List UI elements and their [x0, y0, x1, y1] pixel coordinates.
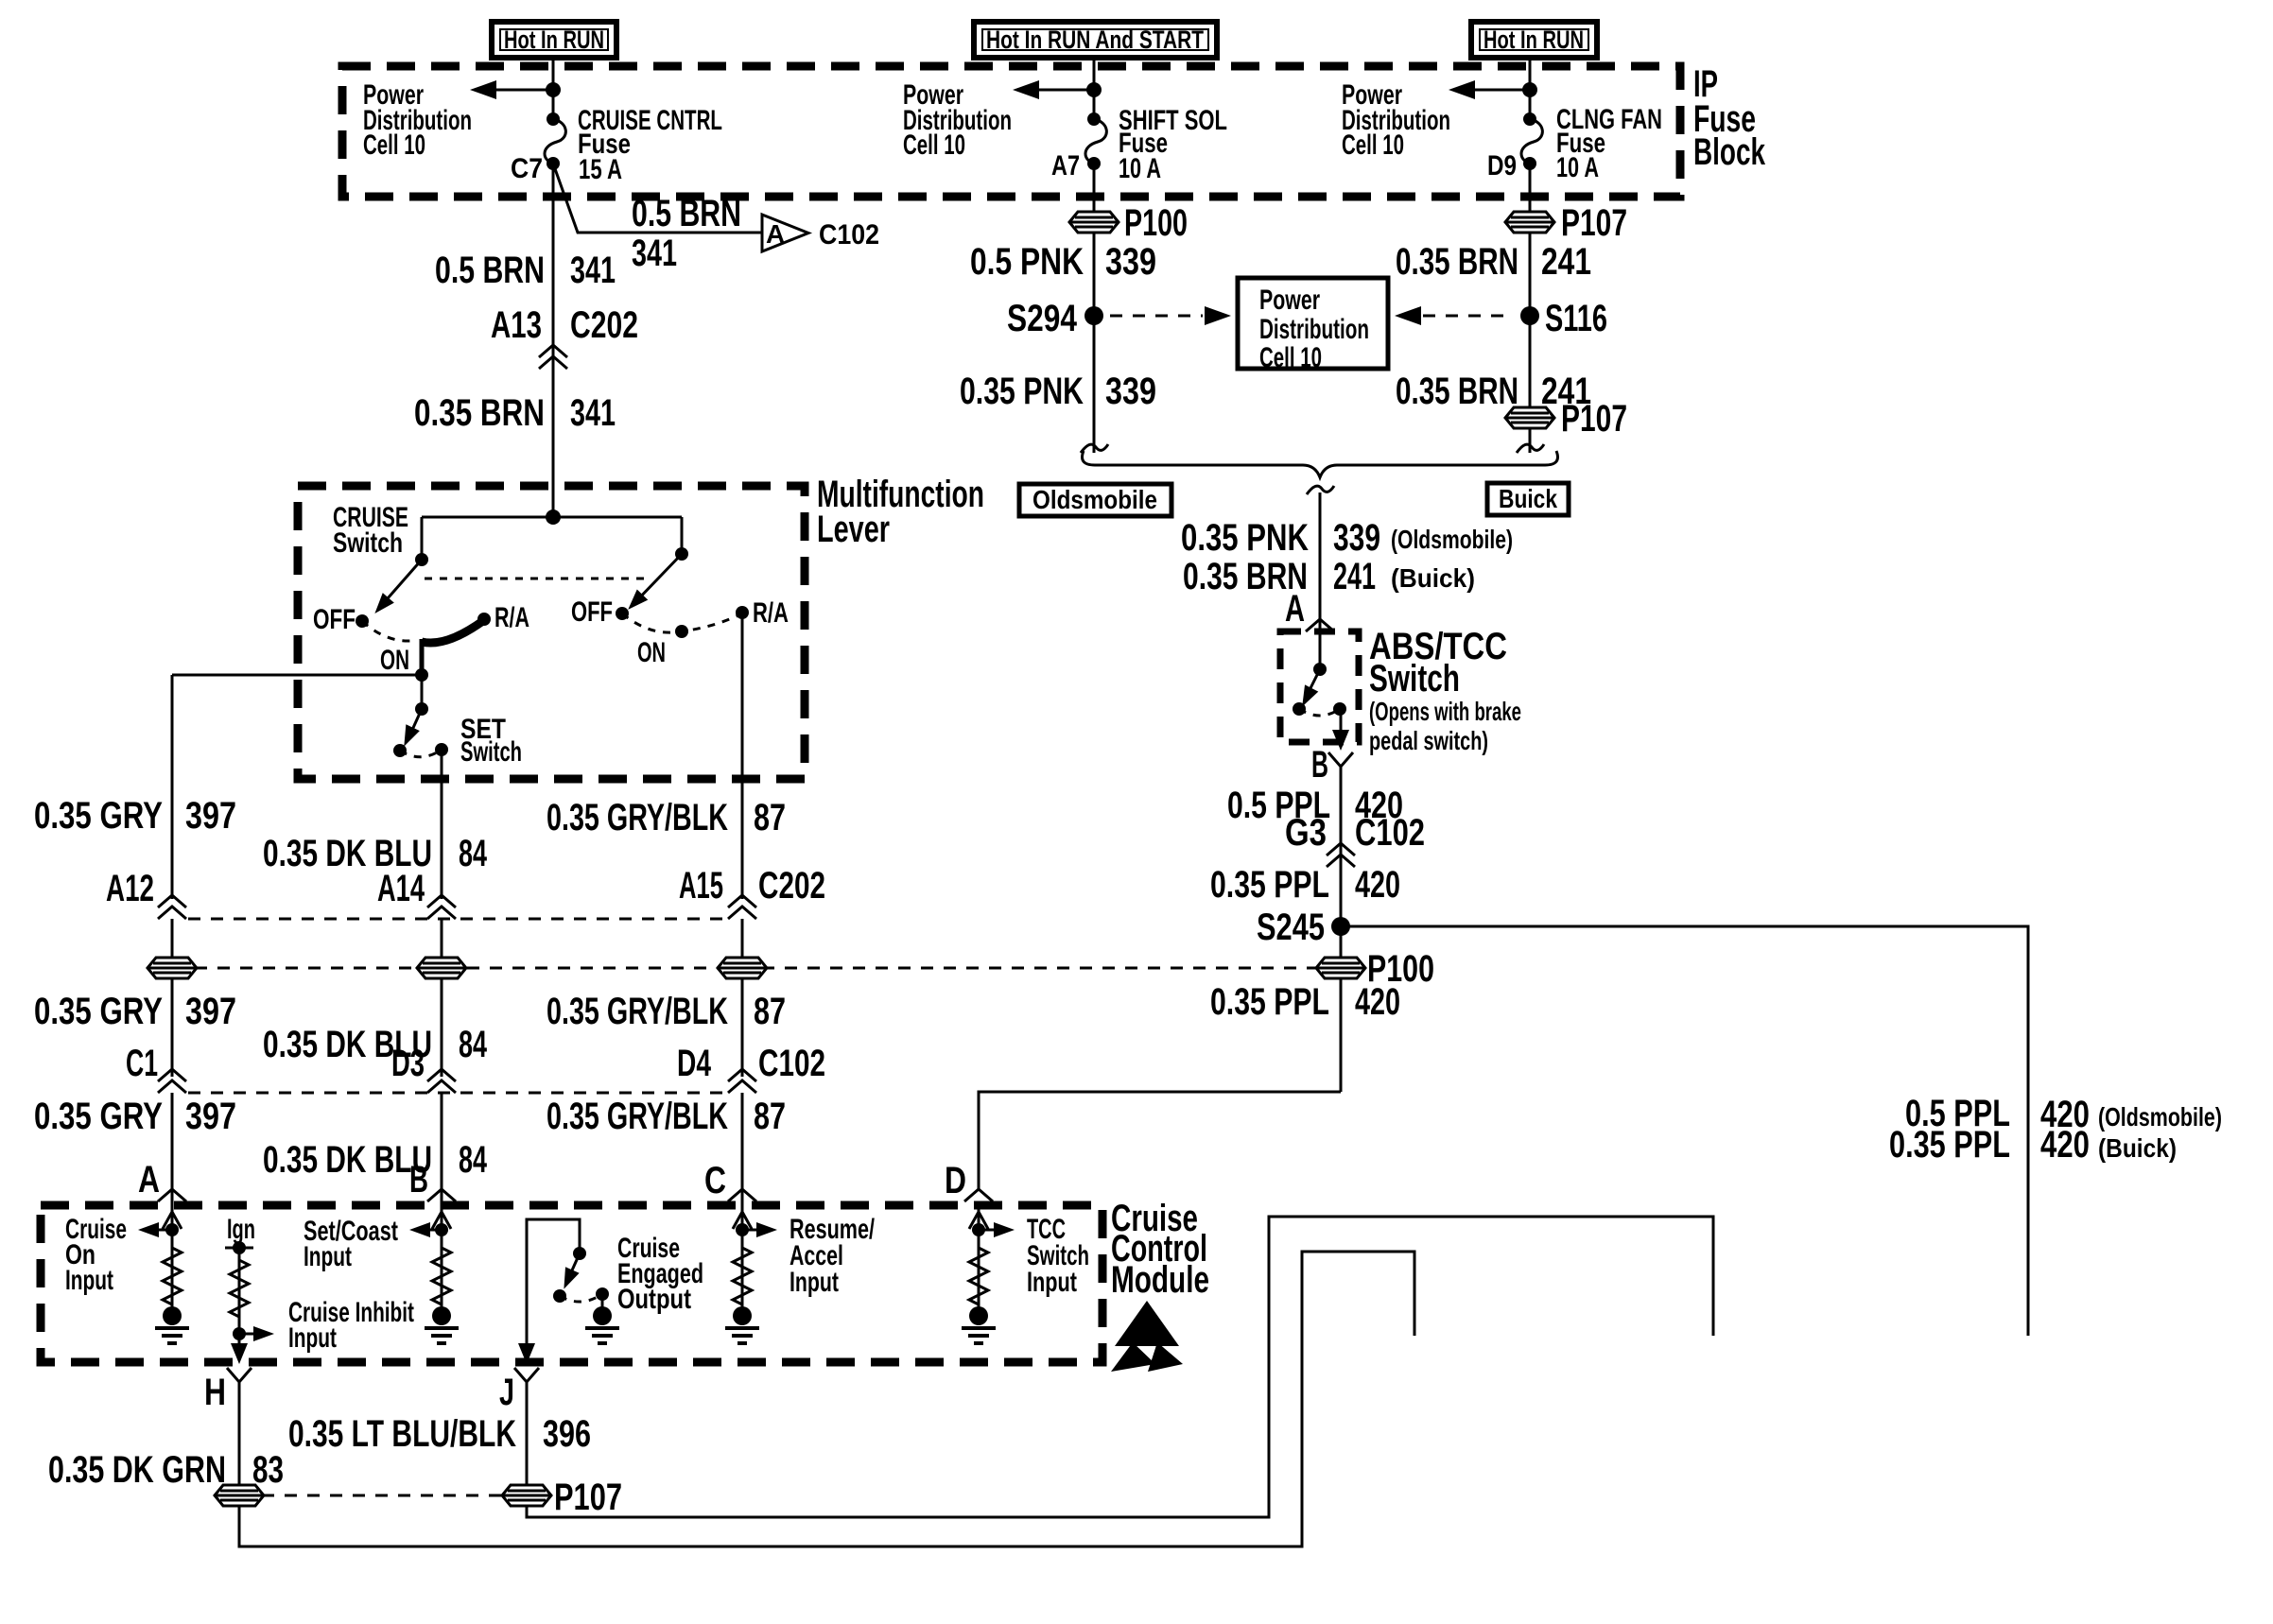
- wire break tildes above brace: [1081, 444, 1108, 453]
- fuse SHIFT SOL 10 A: [1085, 112, 1106, 170]
- svg-text:G3: G3: [1285, 812, 1327, 854]
- grommet (B column): [417, 958, 466, 978]
- wire: B column (DK BLU 84): [441, 750, 443, 899]
- svg-text:A13: A13: [491, 304, 542, 346]
- Hot In RUN tag (right): [1471, 22, 1597, 58]
- pin J below cruise module: [514, 1368, 539, 1382]
- svg-text:Module: Module: [1111, 1259, 1209, 1301]
- label: CLNG FAN Fuse 10 A: [1556, 104, 1662, 183]
- node: cruise switch feed junction: [546, 510, 561, 525]
- wire: PPL 420 down from ABS/TCC: [1340, 767, 1343, 926]
- grommet P100: [1069, 212, 1119, 233]
- svg-text:Output: Output: [617, 1284, 691, 1315]
- svg-text:397: 397: [185, 1096, 236, 1137]
- svg-text:A14: A14: [377, 868, 425, 909]
- wire: middle column below fuse: [1093, 164, 1096, 453]
- svg-text:Switch: Switch: [1369, 658, 1460, 700]
- svg-text:(Opens with brake: (Opens with brake: [1369, 697, 1521, 726]
- Ign branch internals: [225, 1214, 274, 1364]
- wire: merged feed down to ABS/TCC switch: [1319, 492, 1322, 635]
- arrow to power distribution cell 10 (middle): [1033, 89, 1094, 92]
- svg-text:397: 397: [185, 795, 236, 837]
- label: CRUISE Switch: [333, 502, 408, 559]
- wire: hot feed left column: [552, 58, 555, 120]
- wire: H output DK GRN 83: [239, 1252, 1414, 1546]
- arrow to power distribution cell 10 (left): [491, 89, 553, 92]
- cruise engaged output switch internals: [518, 1219, 619, 1364]
- svg-text:339: 339: [1333, 517, 1380, 559]
- label: Power Distribution Cell 10 (left): [363, 79, 472, 161]
- svg-text:Hot In RUN And START: Hot In RUN And START: [986, 26, 1204, 54]
- wire: branch to C102 terminal A: [553, 164, 762, 233]
- ABS/TCC switch contacts: [1293, 633, 1349, 751]
- svg-text:Block: Block: [1693, 131, 1766, 173]
- svg-text:Power: Power: [1259, 285, 1320, 316]
- fuse CLNG FAN 10 A: [1521, 112, 1542, 170]
- svg-text:OFF: OFF: [313, 604, 356, 635]
- svg-text:420: 420: [1355, 981, 1400, 1023]
- svg-text:0.35 GRY/BLK: 0.35 GRY/BLK: [547, 991, 728, 1032]
- svg-text:87: 87: [754, 991, 786, 1032]
- svg-text:Input: Input: [789, 1267, 839, 1298]
- svg-text:D9: D9: [1487, 150, 1517, 181]
- svg-text:0.5 BRN: 0.5 BRN: [435, 250, 545, 291]
- wire: PPL 420 over to cruise module pin D: [979, 1092, 1341, 1190]
- label: Cruise Control Module: [1111, 1198, 1209, 1301]
- wires through bulkhead grommets: [171, 919, 174, 1077]
- svg-text:420: 420: [1355, 864, 1400, 906]
- svg-text:P107: P107: [554, 1477, 622, 1518]
- wire: left switch drop: [421, 517, 424, 560]
- right ON contact: [675, 625, 688, 638]
- Power Distribution Cell 10 box: [1238, 278, 1388, 373]
- svg-text:pedal switch): pedal switch): [1369, 726, 1488, 755]
- svg-text:84: 84: [459, 1139, 488, 1181]
- svg-text:Distribution: Distribution: [1259, 314, 1369, 345]
- Multifunction Lever dashed box: [298, 486, 805, 779]
- svg-text:D: D: [945, 1160, 966, 1201]
- svg-text:(Oldsmobile): (Oldsmobile): [1391, 525, 1513, 554]
- svg-text:ON: ON: [637, 637, 666, 668]
- label: Cruise On Input: [65, 1214, 127, 1296]
- svg-text:0.5 BRN: 0.5 BRN: [632, 193, 741, 234]
- tcc switch input pin D internals: [962, 1207, 1015, 1343]
- svg-text:P107: P107: [1561, 398, 1627, 440]
- svg-text:A7: A7: [1051, 150, 1080, 181]
- svg-text:241: 241: [1541, 241, 1591, 283]
- merge brace: [1083, 451, 1558, 477]
- svg-text:339: 339: [1105, 241, 1156, 283]
- label: Multifunction Lever: [817, 474, 984, 550]
- wire: S245 to PCM TCC brake switch input: [1341, 926, 2028, 1336]
- svg-text:341: 341: [632, 233, 677, 274]
- svg-text:397: 397: [185, 991, 236, 1032]
- closed contact arc to R/A: [422, 620, 484, 643]
- svg-text:0.35 PPL: 0.35 PPL: [1889, 1124, 2010, 1166]
- dashed grommet row to P100: [172, 967, 1316, 970]
- svg-text:0.35 BRN: 0.35 BRN: [1396, 371, 1518, 412]
- svg-text:0.35 GRY/BLK: 0.35 GRY/BLK: [547, 797, 728, 838]
- svg-text:R/A: R/A: [495, 602, 529, 633]
- wire: ON output to A column: [172, 674, 422, 677]
- dashed grommet row P107: [239, 1494, 527, 1497]
- svg-text:C202: C202: [570, 304, 638, 346]
- svg-text:S294: S294: [1007, 298, 1078, 339]
- junction dot: [1522, 82, 1537, 97]
- svg-text:A12: A12: [106, 868, 154, 909]
- svg-text:OFF: OFF: [571, 596, 613, 628]
- svg-text:C7: C7: [511, 153, 543, 184]
- grommet (H column): [215, 1485, 264, 1506]
- grommet (A column): [147, 958, 197, 978]
- svg-text:84: 84: [459, 1024, 488, 1065]
- svg-text:S116: S116: [1545, 298, 1607, 339]
- dashed throw arc left switch: [362, 621, 410, 641]
- svg-text:S245: S245: [1257, 907, 1325, 948]
- junction dot: [546, 82, 561, 97]
- SET switch contacts: [393, 744, 407, 757]
- right switch arm arrow: [634, 554, 682, 603]
- left switch arm arrow: [381, 560, 422, 606]
- left OFF contact: [356, 614, 369, 628]
- svg-text:84: 84: [459, 833, 488, 874]
- svg-text:A: A: [1285, 588, 1305, 630]
- label: ABS/TCC Switch: [1369, 626, 1521, 755]
- ABS/TCC switch dashed box: [1280, 631, 1359, 742]
- connector A13 C202: [491, 304, 638, 369]
- grommet P100 (lower): [1316, 958, 1365, 978]
- svg-text:Input: Input: [288, 1322, 337, 1354]
- label: SHIFT SOL Fuse 10 A: [1119, 105, 1227, 184]
- wire: hot feed middle column: [1093, 58, 1096, 120]
- svg-text:0.35 PPL: 0.35 PPL: [1210, 981, 1329, 1023]
- svg-text:341: 341: [570, 392, 616, 434]
- ESD symbol (cruise control module): [1111, 1301, 1183, 1372]
- svg-text:(Buick): (Buick): [2098, 1133, 2177, 1163]
- dashed throw arc right switch: [622, 613, 742, 632]
- connector row C102: C1 D3 D4: [126, 1043, 825, 1093]
- svg-text:0.35 DK BLU: 0.35 DK BLU: [263, 1139, 432, 1181]
- module pins A B C D: [138, 1159, 993, 1201]
- wire: down to SET switch: [421, 675, 424, 709]
- node: ON output junction: [415, 668, 428, 682]
- svg-text:C202: C202: [758, 865, 825, 907]
- splice S116: [1520, 306, 1539, 325]
- right R/A contact: [736, 606, 749, 619]
- wire: C column (GRY/BLK 87): [741, 613, 744, 899]
- svg-text:0.35 LT BLU/BLK: 0.35 LT BLU/BLK: [288, 1413, 516, 1455]
- svg-text:B: B: [1311, 744, 1328, 786]
- grommet (C column): [718, 958, 767, 978]
- svg-text:J: J: [499, 1372, 514, 1413]
- svg-text:0.35 PNK: 0.35 PNK: [960, 371, 1084, 412]
- svg-text:87: 87: [754, 1096, 786, 1137]
- junction dot: [1086, 82, 1102, 97]
- grommet P107: [1505, 212, 1554, 233]
- wire: S245 down through P100: [1340, 926, 1343, 1092]
- svg-text:C: C: [704, 1160, 726, 1201]
- connector G3 C102: [1285, 812, 1425, 867]
- svg-text:10 A: 10 A: [1119, 153, 1161, 184]
- wire break tilde below brace: [1307, 486, 1334, 494]
- wire: J output LT BLU/BLK 396: [527, 1217, 1713, 1517]
- svg-text:341: 341: [570, 250, 616, 291]
- svg-text:0.35 DK GRN: 0.35 DK GRN: [48, 1449, 226, 1491]
- wire: A column (GRY 397): [171, 675, 174, 899]
- svg-text:Buick: Buick: [1499, 484, 1557, 513]
- label: SET Switch: [460, 714, 522, 768]
- svg-text:C102: C102: [758, 1043, 825, 1084]
- svg-text:83: 83: [252, 1449, 284, 1491]
- splice S245: [1331, 917, 1350, 936]
- svg-text:R/A: R/A: [753, 597, 789, 629]
- left R/A contact: [477, 613, 491, 626]
- label: Resume/Accel Input: [789, 1214, 875, 1298]
- svg-text:0.35 BRN: 0.35 BRN: [1396, 241, 1518, 283]
- svg-text:339: 339: [1105, 371, 1156, 412]
- svg-text:15 A: 15 A: [579, 154, 622, 185]
- svg-text:Cell 10: Cell 10: [1259, 342, 1322, 373]
- svg-text:C102: C102: [819, 219, 879, 251]
- svg-text:A: A: [766, 219, 785, 249]
- label: Power Distribution Cell 10 (right): [1342, 79, 1450, 161]
- svg-text:Lever: Lever: [817, 509, 890, 550]
- svg-text:H: H: [204, 1372, 226, 1413]
- svg-text:P100: P100: [1124, 202, 1188, 244]
- wire: cruise switch top rail: [422, 516, 682, 519]
- svg-text:10 A: 10 A: [1556, 152, 1599, 183]
- wire: right column below fuse: [1529, 164, 1532, 453]
- svg-text:87: 87: [754, 797, 786, 838]
- svg-text:396: 396: [543, 1413, 591, 1455]
- svg-text:Oldsmobile: Oldsmobile: [1032, 485, 1157, 514]
- right OFF contact: [616, 607, 629, 620]
- svg-text:Cell 10: Cell 10: [1342, 130, 1404, 161]
- pin B of ABS/TCC switch: [1328, 752, 1353, 767]
- svg-text:(Oldsmobile): (Oldsmobile): [2098, 1102, 2222, 1132]
- svg-text:Input: Input: [65, 1265, 113, 1296]
- label: TCC Switch Input: [1027, 1214, 1089, 1298]
- grommet P107 (second): [1505, 407, 1554, 428]
- fuse CRUISE CNTRL 15 A: [545, 112, 565, 170]
- svg-text:241: 241: [1333, 556, 1376, 597]
- splice S294: [1084, 306, 1103, 325]
- grommet P107 (J column): [502, 1485, 551, 1506]
- svg-text:(Buick): (Buick): [1391, 563, 1475, 593]
- mechanical link dashed: [425, 578, 648, 580]
- svg-text:Cell 10: Cell 10: [363, 130, 425, 161]
- svg-text:0.35 GRY: 0.35 GRY: [34, 1096, 163, 1137]
- label: CRUISE CNTRL Fuse 15 A: [578, 105, 722, 185]
- svg-text:0.35 BRN: 0.35 BRN: [414, 392, 545, 434]
- arrow to power distribution cell 10 (right): [1469, 89, 1530, 92]
- IP fuse block dashed box: [342, 66, 1680, 197]
- SET switch arm arrow: [408, 709, 422, 738]
- dashed arrow S116 to power distribution: [1395, 306, 1421, 325]
- resume/accel input pin C internals: [725, 1207, 777, 1343]
- svg-text:Input: Input: [1027, 1267, 1077, 1298]
- Hot In RUN tag (left): [492, 22, 616, 58]
- svg-text:420: 420: [2040, 1124, 2090, 1166]
- cruise on input pin A internals: [138, 1207, 189, 1343]
- svg-text:Hot In RUN: Hot In RUN: [1484, 26, 1584, 54]
- svg-text:C1: C1: [126, 1043, 158, 1084]
- svg-text:P107: P107: [1561, 202, 1627, 244]
- svg-text:Switch: Switch: [460, 736, 522, 768]
- Cruise Control Module dashed box: [41, 1205, 1102, 1362]
- Oldsmobile tag: [1019, 484, 1171, 516]
- svg-text:D3: D3: [391, 1043, 425, 1084]
- label: Power Distribution Cell 10 (middle): [903, 79, 1012, 161]
- wire: hot feed right column: [1529, 58, 1532, 120]
- label: Cruise Inhibit Input: [288, 1297, 414, 1354]
- set/coast input pin B internals: [409, 1207, 459, 1343]
- svg-text:0.35 GRY: 0.35 GRY: [34, 795, 163, 837]
- connector triangle A C102: [762, 215, 879, 251]
- svg-text:Cell 10: Cell 10: [903, 130, 965, 161]
- svg-text:B: B: [409, 1159, 428, 1201]
- svg-text:Input: Input: [304, 1241, 352, 1272]
- svg-text:Hot In RUN: Hot In RUN: [504, 26, 604, 54]
- svg-text:0.5 PNK: 0.5 PNK: [970, 241, 1084, 283]
- svg-text:Switch: Switch: [333, 527, 403, 559]
- IP Fuse Block label: [1693, 63, 1766, 173]
- svg-text:ON: ON: [380, 645, 409, 676]
- Buick tag: [1487, 483, 1569, 515]
- svg-text:0.35 GRY/BLK: 0.35 GRY/BLK: [547, 1096, 728, 1137]
- label: Set/Coast Input: [304, 1216, 398, 1272]
- wire: right switch drop: [681, 517, 684, 554]
- wires down to cruise module: [171, 1093, 174, 1207]
- label: Cruise Engaged Output: [617, 1233, 703, 1315]
- connector row C202: A12 A14 A15: [106, 865, 825, 919]
- wire: fuse output C7 down to cruise switch: [552, 164, 555, 517]
- svg-text:0.35 GRY: 0.35 GRY: [34, 991, 163, 1032]
- svg-text:C102: C102: [1355, 812, 1425, 854]
- svg-text:D4: D4: [677, 1043, 712, 1084]
- svg-text:A: A: [138, 1159, 160, 1201]
- svg-text:0.35 PPL: 0.35 PPL: [1210, 864, 1329, 906]
- dashed arrow S294 to power distribution: [1110, 315, 1203, 318]
- svg-text:0.35 PNK: 0.35 PNK: [1181, 517, 1309, 559]
- pin H below cruise module: [227, 1368, 252, 1382]
- Hot In RUN And START tag (middle): [974, 22, 1217, 58]
- svg-text:Ign: Ign: [227, 1214, 255, 1245]
- svg-text:A15: A15: [679, 865, 723, 907]
